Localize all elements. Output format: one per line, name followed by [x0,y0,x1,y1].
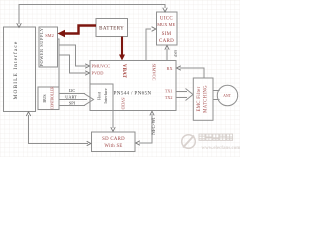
wire PN544 down to SD card [111,111,115,132]
block Mobile Interface [4,27,36,112]
svg-text:PN544 / PN65N: PN544 / PN65N [114,91,152,97]
wires TX1 TX2 to EMC filter [177,89,194,101]
wire NFC-WI SD card to PN544 [136,111,157,145]
svg-text:PVDD: PVDD [92,70,104,75]
wire SPI bus [59,100,85,105]
watermark logo elecfans [182,134,242,151]
block Battery [96,19,128,37]
block SD card with SE [92,132,136,152]
svg-text:POWER SUPPLY: POWER SUPPLY [39,27,44,66]
wire PMUVCC supply [59,45,89,68]
svg-text:NFC-WI: NFC-WI [152,117,157,135]
wire I2C bus [59,88,85,93]
svg-text:BUS: BUS [42,94,47,103]
svg-text:TX2: TX2 [165,95,173,100]
svg-text:VBAT: VBAT [121,64,126,79]
svg-text:RX: RX [167,66,173,71]
svg-text:SVDD: SVDD [121,98,126,110]
svg-text:TX1: TX1 [165,89,173,94]
block UICC / SIM card [157,12,178,45]
wire SWP PN544 to SIM card [165,46,177,61]
svg-text:MATCHING: MATCHING [204,85,209,113]
wire RX to EMC filter [177,66,204,78]
antenna loop [217,85,237,105]
svg-text:PMUVCC: PMUVCC [92,64,111,69]
wire battery to power supply (thick) [58,26,97,38]
svg-text:With SE: With SE [104,144,122,149]
wire PN544 to UICC (left) [146,27,156,61]
wire mobile to UICC (top) [17,5,168,28]
antenna feed lines [213,91,220,100]
svg-text:SIMVCC: SIMVCC [152,64,157,81]
svg-text:CONTROLLER: CONTROLLER [51,86,55,109]
svg-text:SIM: SIM [162,32,172,37]
arrow buses into host interface [85,94,94,105]
block Power Supply [39,27,58,67]
svg-text:UART: UART [65,94,77,99]
svg-text:SPI: SPI [69,100,76,105]
svg-text:Interface: Interface [103,88,108,103]
svg-text:SWP: SWP [173,50,177,57]
svg-text:SM2: SM2 [45,33,54,38]
svg-text:BATTERY: BATTERY [99,27,124,32]
block EMC filter + matching [193,78,213,120]
wire battery to VBAT (thick) [119,37,125,61]
wire UART bus [59,94,87,99]
svg-text:CARD: CARD [159,39,174,44]
block Host Interface (inside PN544) [90,84,113,111]
svg-text:SD CARD: SD CARD [102,137,125,142]
svg-text:www.elecfans.com: www.elecfans.com [202,146,241,151]
svg-text:MUX ME: MUX ME [157,22,175,27]
svg-text:EMC Filter: EMC Filter [197,86,202,111]
wire PVDD supply [59,55,89,75]
svg-text:ANT: ANT [223,94,231,98]
svg-text:Host: Host [97,91,102,100]
wire power supply down to bus controller [58,39,60,87]
block PN544 / PN65N [90,61,176,111]
svg-text:MOBILE Interface: MOBILE Interface [12,41,19,100]
svg-text:I2C: I2C [69,88,76,93]
block Bus Controller [38,86,59,110]
wire mobile interface to SD card [26,112,91,146]
